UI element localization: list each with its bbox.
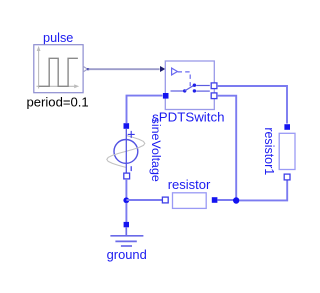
- SPDT switch right upper pin n1 (hollow square): [211, 83, 217, 89]
- svg-text:pulse: pulse: [43, 31, 73, 45]
- resistor R1 left pin (hollow square): [162, 197, 168, 203]
- wire sineVoltage n pin to node A: [125, 179, 127, 198]
- SPDT switch pivot dot: [183, 89, 186, 92]
- wire node A to ground pin: [125, 203, 127, 222]
- pulse source block P1: [34, 45, 83, 93]
- sine voltage internal vertical wire: [125, 129, 127, 173]
- SPDT switch upper contact dot: [193, 84, 196, 87]
- node A junction dot: [123, 197, 129, 203]
- sine voltage plus sign: [128, 131, 135, 138]
- wire sineVoltage p pin to switch left pin: [127, 96, 163, 123]
- wire switch upper output to resistor1 top: [217, 86, 287, 124]
- pulse output connector y: [83, 66, 89, 71]
- node B junction dot: [233, 197, 239, 203]
- SPDT switch right lower pin n2 (hollow square): [211, 93, 217, 99]
- sine voltage p pin (filled square): [124, 123, 130, 129]
- resistor R1 body: [173, 193, 207, 209]
- svg-text:period=0.1: period=0.1: [26, 94, 88, 109]
- sine voltage minus sign (rotated bar): [130, 166, 132, 171]
- SPDT switch left pin p (filled square): [163, 93, 169, 99]
- svg-text:resistor1: resistor1: [262, 127, 276, 175]
- sine voltage n pin (hollow square): [124, 173, 130, 179]
- wire resistor right pin to node B: [217, 199, 234, 201]
- wire node A to resistor left pin: [126, 199, 162, 201]
- ground G1 symbol: [110, 227, 143, 246]
- SPDT switch U1 box: [165, 61, 214, 110]
- wire node B to resistor1 bottom pin: [240, 180, 288, 200]
- SPDT switch upper contact line: [196, 85, 210, 87]
- svg-text:resistor: resistor: [168, 177, 211, 192]
- wire switch lower output to node B: [217, 96, 236, 198]
- SPDT switch lower contact line: [196, 90, 210, 92]
- arrowhead at switch control input: [160, 66, 165, 72]
- SPDT switch lower contact dot: [193, 89, 196, 92]
- wire pulse output to switch control input: [89, 68, 160, 70]
- ground G1 pin (filled square): [124, 222, 129, 227]
- resistor R2 bottom pin (hollow square): [284, 174, 290, 180]
- SPDT switch control triangle: [172, 68, 178, 75]
- svg-text:ground: ground: [107, 247, 147, 262]
- SPDT switch dashed control line: [178, 72, 191, 86]
- resistor R1 right pin (filled square): [212, 197, 218, 203]
- sine voltage source V1 circle: [114, 140, 138, 164]
- SPDT switch common contact line: [171, 90, 185, 92]
- resistor R2 (resistor1) body: [279, 133, 295, 169]
- resistor R2 top pin (filled square): [284, 124, 290, 130]
- svg-text:sineVoltage: sineVoltage: [149, 118, 163, 182]
- sine voltage gray sine curve: [107, 135, 145, 167]
- SPDT switch lever: [185, 85, 194, 91]
